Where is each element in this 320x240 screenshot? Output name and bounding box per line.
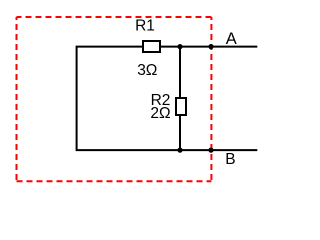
- svg-text:3Ω: 3Ω: [137, 62, 157, 79]
- svg-text:R1: R1: [135, 18, 155, 35]
- svg-text:A: A: [226, 30, 237, 48]
- svg-text:2Ω: 2Ω: [150, 105, 170, 122]
- svg-text:B: B: [225, 151, 235, 168]
